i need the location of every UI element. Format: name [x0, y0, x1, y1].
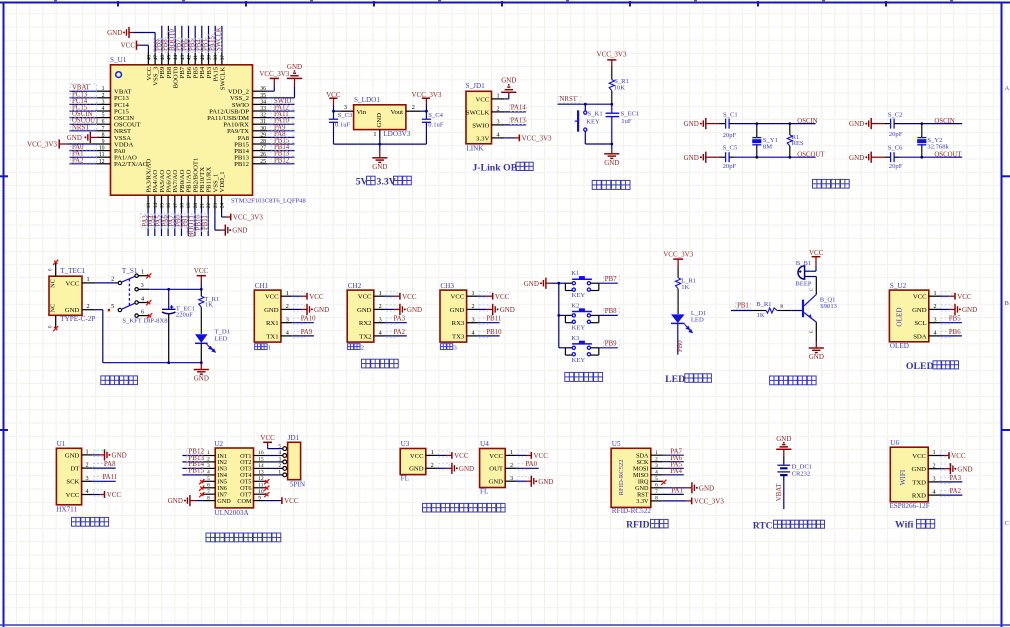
svg-text:VCC: VCC: [913, 294, 927, 301]
svg-text:19: 19: [186, 203, 192, 209]
U3 body: [400, 449, 426, 475]
svg-text:33: 33: [260, 106, 266, 112]
svg-text:VCC: VCC: [454, 452, 469, 460]
svg-text:4: 4: [471, 330, 474, 337]
svg-text:PA3: PA3: [950, 475, 962, 482]
svg-text:46: 46: [160, 55, 166, 61]
svg-text:1: 1: [471, 290, 474, 297]
svg-text:CH2: CH2: [348, 282, 362, 290]
svg-text:S_U1: S_U1: [110, 56, 127, 64]
svg-text:2: 2: [207, 457, 210, 463]
svg-text:13: 13: [258, 470, 264, 476]
svg-text:A: A: [1005, 85, 1010, 92]
oled vcc: [940, 295, 949, 297]
svg-text:SWIO: SWIO: [472, 122, 489, 129]
svg-text:15: 15: [160, 203, 166, 209]
net label NRST wire: [558, 103, 612, 105]
svg-text:PA2: PA2: [950, 488, 962, 495]
svg-text:2: 2: [431, 462, 434, 469]
svg-text:K2: K2: [571, 302, 579, 309]
erc marker: [108, 309, 110, 311]
svg-text:42: 42: [187, 55, 193, 61]
svg-text:C: C: [1005, 520, 1010, 527]
capacitor S_C3: [333, 111, 335, 119]
mcu VSS_1 wire to gnd: [214, 210, 216, 231]
svg-text:2: 2: [510, 462, 513, 469]
svg-text:TX3: TX3: [452, 333, 465, 340]
svg-text:41: 41: [193, 55, 199, 61]
svg-text:S_C5: S_C5: [723, 145, 738, 152]
svg-text:PB9: PB9: [605, 341, 617, 348]
svg-text:KEY: KEY: [572, 292, 586, 299]
battery wire down / net label VBAT: [783, 475, 785, 482]
jlink S_JD1 body: [466, 91, 492, 144]
svg-text:PB8: PB8: [605, 308, 617, 315]
svg-text:VCC_3V3: VCC_3V3: [663, 251, 693, 259]
svg-text:GND: GND: [357, 307, 372, 314]
svg-text:GND: GND: [194, 375, 209, 383]
svg-text:VCC: VCC: [534, 452, 549, 460]
svg-text:1: 1: [496, 93, 499, 100]
net label PB8: [161, 38, 168, 52]
net label PB6: [181, 38, 188, 52]
key S_K1 switch: [584, 111, 587, 114]
svg-text:STM32F103C8T6_LQFP48: STM32F103C8T6_LQFP48: [231, 198, 306, 205]
svg-text:GND: GND: [912, 466, 927, 473]
svg-text:GND: GND: [500, 306, 515, 314]
svg-text:KEY: KEY: [586, 118, 600, 125]
svg-text:ESP8266-12F: ESP8266-12F: [889, 502, 929, 510]
mcu VDD_1 wire to vcc: [221, 210, 223, 218]
svg-text:VCC: VCC: [451, 294, 465, 301]
svg-text:PA9: PA9: [301, 329, 313, 336]
key wire / net label PB7: [599, 282, 618, 284]
keys bus: [558, 283, 560, 348]
switch lever top: [122, 276, 135, 282]
svg-text:2: 2: [286, 303, 289, 310]
key S_K1 branch: [584, 104, 586, 111]
svg-text:5: 5: [111, 303, 114, 310]
svg-text:GND: GND: [376, 113, 383, 128]
ldo gnd pin stub: [379, 130, 381, 138]
svg-text:18: 18: [180, 203, 186, 209]
wire gnd bottom rail: [379, 138, 381, 145]
svg-text:VCC: VCC: [402, 293, 417, 301]
svg-text:U2: U2: [214, 440, 223, 448]
title stepper motor: [206, 533, 215, 542]
svg-text:FL: FL: [480, 488, 488, 496]
wire vout: [421, 110, 427, 112]
svg-text:12: 12: [99, 159, 105, 165]
crystal gnd top: [865, 118, 871, 129]
jlink vcc_3v3 port: [518, 135, 520, 142]
svg-text:VCC: VCC: [66, 492, 80, 499]
crystal gnd top: [700, 118, 706, 129]
comment serial 2: [348, 344, 354, 350]
svg-text:VCC_3V3: VCC_3V3: [233, 214, 263, 222]
uln IN5 no-connect: [199, 479, 204, 484]
battery D_DC1: [783, 456, 785, 465]
mcu VDD_1 vcc_3v3 port: [230, 214, 232, 221]
CH3 vcc: [478, 295, 488, 297]
switch lever bottom: [122, 303, 135, 309]
svg-text:27: 27: [260, 146, 266, 152]
svg-text:OSCIN: OSCIN: [797, 118, 817, 125]
svg-text:3: 3: [932, 476, 935, 483]
switch pin3 wire: [138, 288, 149, 290]
svg-text:B_B1: B_B1: [796, 260, 811, 267]
oled scl wire / net label PB5: [940, 322, 962, 324]
svg-text:9: 9: [102, 139, 105, 145]
svg-text:3: 3: [496, 119, 499, 126]
key K1: [559, 282, 566, 284]
svg-text:GND: GND: [524, 280, 539, 288]
svg-text:30: 30: [260, 126, 266, 132]
svg-text:4: 4: [102, 106, 105, 112]
buzzer B_B1: [815, 266, 817, 271]
svg-text:LED: LED: [215, 336, 228, 343]
uln gnd: [196, 500, 203, 502]
svg-text:2: 2: [102, 93, 105, 99]
svg-text:2: 2: [933, 303, 936, 310]
svg-text:0.1uF: 0.1uF: [428, 122, 444, 129]
svg-text:GND: GND: [604, 159, 619, 167]
svg-text:S_C6: S_C6: [888, 145, 903, 152]
CH1 tx wire / net label PA9: [292, 335, 314, 337]
svg-text:VDD_1: VDD_1: [219, 171, 226, 192]
svg-text:LED: LED: [665, 374, 685, 385]
capacitor T_EC1: [167, 288, 170, 291]
svg-text:PB6: PB6: [949, 329, 961, 336]
svg-text:4: 4: [141, 295, 144, 302]
svg-text:VCC: VCC: [912, 453, 926, 460]
hx711 gnd: [92, 454, 100, 456]
crystal S_Y2: [920, 122, 923, 125]
svg-text:39: 39: [207, 55, 213, 61]
svg-text:OUT: OUT: [489, 466, 503, 473]
svg-text:TXD: TXD: [912, 479, 926, 486]
svg-text:5V: 5V: [356, 177, 368, 188]
svg-text:PB1: PB1: [737, 303, 749, 310]
svg-text:32: 32: [260, 113, 266, 119]
wire gnd down: [95, 309, 103, 311]
svg-text:PB15: PB15: [188, 467, 204, 475]
capacitor top: [719, 123, 726, 125]
net label SWCLK: [214, 32, 221, 53]
oled S_U2 body: [889, 290, 928, 342]
svg-text:26: 26: [260, 152, 266, 158]
svg-text:NC: NC: [50, 279, 57, 288]
svg-text:2: 2: [932, 462, 935, 469]
svg-text:2: 2: [496, 106, 499, 113]
svg-text:2: 2: [361, 345, 364, 352]
resistor R1: [788, 122, 791, 125]
reset gnd symbol: [604, 154, 619, 159]
mcu U1 body: [111, 65, 253, 195]
jlink pin4 wire to vcc: [504, 137, 514, 139]
svg-text:11: 11: [99, 152, 105, 158]
net label PB11: [200, 214, 207, 231]
capacitor top: [884, 123, 890, 125]
svg-text:LINK: LINK: [466, 145, 484, 153]
svg-text:VCC_3V3: VCC_3V3: [694, 498, 724, 506]
svg-text:VCC: VCC: [951, 452, 966, 460]
CH2 rx wire / net label PA3: [385, 322, 407, 324]
CH1 gnd: [292, 308, 302, 310]
svg-text:GND: GND: [809, 353, 824, 361]
ldo gnd symbol: [372, 158, 387, 163]
svg-text:6: 6: [141, 308, 144, 315]
mcu VDD_2 wire to vcc: [267, 90, 274, 92]
jd1 pin 5: [283, 447, 287, 451]
svg-text:B_R1: B_R1: [756, 301, 771, 308]
svg-text:4: 4: [933, 330, 936, 337]
jlink pin3 wire: [504, 124, 526, 126]
svg-text:SDA: SDA: [913, 333, 927, 340]
buzzer gnd symbol: [809, 348, 824, 353]
title ir switch module: [423, 503, 432, 512]
capacitor S_EC1: [611, 104, 613, 113]
CH1 rx wire / net label PA10: [292, 322, 314, 324]
uln in wire / net label PB14: [182, 467, 202, 469]
svg-text:GND: GND: [912, 307, 927, 314]
svg-text:VCC_3V3: VCC_3V3: [259, 70, 289, 78]
rfid rst wire / net label PA1: [663, 493, 684, 495]
mcu VSSA gnd symbol: [90, 136, 98, 138]
key K2: [559, 314, 566, 316]
svg-text:VCC: VCC: [358, 294, 372, 301]
svg-text:PB5: PB5: [949, 316, 961, 323]
svg-text:OSCOUT: OSCOUT: [797, 151, 825, 158]
led T_D1: [195, 334, 208, 343]
svg-text:1: 1: [932, 449, 935, 456]
net label PB7: [174, 38, 181, 52]
svg-text:PA2: PA2: [394, 329, 406, 336]
svg-text:GND: GND: [168, 497, 183, 505]
svg-text:8M: 8M: [763, 143, 772, 150]
svg-text:PA14: PA14: [511, 104, 526, 111]
svg-text:VCC: VCC: [489, 453, 503, 460]
svg-text:7: 7: [207, 489, 210, 495]
svg-text:SWCLK: SWCLK: [466, 109, 490, 116]
svg-text:RFID-RC522: RFID-RC522: [612, 507, 652, 515]
svg-text:GND: GND: [962, 306, 977, 314]
svg-text:SCL: SCL: [914, 320, 926, 327]
svg-text:3.3V: 3.3V: [377, 177, 396, 188]
svg-text:TX2: TX2: [359, 333, 371, 340]
svg-text:4: 4: [379, 330, 382, 337]
wifi txd wire / net label PA3: [940, 481, 963, 483]
resistor L_R1: [677, 266, 679, 278]
rfid 3.3V to vcc_3v3: [663, 500, 687, 502]
svg-text:RX1: RX1: [266, 320, 279, 327]
svg-text:14: 14: [153, 203, 159, 209]
svg-text:SCK: SCK: [66, 479, 79, 486]
svg-text:3: 3: [102, 99, 105, 105]
svg-text:20pF: 20pF: [889, 131, 903, 138]
svg-text:Wifi: Wifi: [895, 520, 914, 531]
svg-text:1: 1: [85, 449, 88, 456]
svg-text:VCC: VCC: [309, 293, 324, 301]
svg-text:20pF: 20pF: [723, 132, 737, 139]
svg-text:4: 4: [85, 488, 88, 495]
svg-text:1K: 1K: [205, 301, 213, 308]
rfid irq no-connect: [661, 480, 666, 485]
jd1 pin 4: [283, 454, 287, 458]
svg-text:13: 13: [146, 203, 152, 209]
svg-text:VCC: VCC: [809, 249, 824, 257]
svg-text:S_C3: S_C3: [338, 112, 353, 119]
svg-text:OLED: OLED: [906, 361, 934, 372]
svg-text:JD1: JD1: [288, 434, 300, 442]
svg-text:PB12: PB12: [234, 161, 249, 168]
svg-text:4: 4: [932, 489, 935, 496]
svg-text:28: 28: [260, 139, 266, 145]
svg-text:5: 5: [102, 113, 105, 119]
svg-text:8: 8: [102, 132, 105, 138]
net label PA4: [147, 214, 154, 228]
svg-text:20pF: 20pF: [723, 163, 737, 170]
svg-text:2: 2: [412, 104, 415, 111]
svg-text:VCC: VCC: [107, 491, 122, 499]
svg-text:10: 10: [258, 489, 264, 495]
svg-text:14: 14: [258, 463, 264, 469]
svg-text:U5: U5: [612, 440, 621, 448]
title weighing module: [72, 517, 81, 526]
jd1 body: [288, 442, 301, 479]
title key circuit: [565, 372, 574, 381]
jlink pin2 wire: [504, 111, 526, 113]
svg-text:3: 3: [933, 316, 936, 323]
reset bottom wire: [585, 143, 612, 145]
svg-text:20pF: 20pF: [889, 163, 903, 170]
net label PB0: [174, 214, 181, 228]
crystal gnd bottom: [865, 152, 871, 163]
svg-text:2: 2: [655, 456, 658, 462]
crystal S_Y1: [755, 122, 758, 125]
svg-text:5: 5: [207, 476, 210, 482]
svg-text:43: 43: [180, 55, 186, 61]
svg-text:CR232: CR232: [792, 471, 811, 478]
svg-text:LED: LED: [691, 316, 704, 323]
ldo pin3 stub: [340, 110, 353, 112]
uln IN6 no-connect: [199, 486, 204, 491]
keys gnd symbol: [540, 278, 546, 289]
svg-text:BEEP: BEEP: [795, 281, 811, 288]
svg-text:FL: FL: [401, 475, 409, 483]
svg-text:3: 3: [471, 316, 474, 323]
wifi rxd wire / net label PA2: [940, 494, 963, 496]
svg-text:C: C: [809, 288, 814, 291]
svg-text:24: 24: [220, 203, 226, 209]
svg-text:1: 1: [655, 450, 658, 456]
svg-text:PA8: PA8: [104, 461, 116, 468]
hx711 vcc: [92, 494, 100, 496]
jd1 pin 3: [283, 460, 287, 464]
resistor T_R1: [200, 289, 202, 296]
mcu VDD_2 vcc_3v3 port: [270, 77, 279, 79]
resistor B_R1: [731, 310, 752, 312]
wire OT4 to JD1: [266, 474, 279, 476]
uln in wire / net label PB13: [182, 461, 202, 463]
uln in wire / net label PB15: [182, 474, 202, 476]
svg-text:23: 23: [213, 203, 219, 209]
svg-text:S_LDO1: S_LDO1: [354, 96, 380, 104]
svg-text:S_C2: S_C2: [888, 112, 903, 119]
capacitor bottom: [719, 156, 726, 158]
svg-text:VCC: VCC: [476, 96, 490, 103]
svg-text:PA10: PA10: [301, 316, 316, 323]
resistor S_R1: [611, 66, 613, 80]
svg-text:RTC: RTC: [753, 520, 773, 531]
svg-text:COM: COM: [237, 498, 252, 505]
switch pin1: [138, 275, 148, 277]
mcu VSS_2 gnd symbol: [287, 70, 302, 78]
svg-text:1: 1: [286, 290, 289, 297]
svg-text:PA4: PA4: [670, 467, 682, 475]
net label PB1: [736, 303, 751, 309]
svg-text:S9013: S9013: [820, 303, 838, 310]
svg-text:47: 47: [153, 55, 159, 61]
svg-text:3: 3: [141, 282, 144, 289]
wire OT2 to JD1: [266, 461, 279, 463]
svg-text:VCC: VCC: [260, 434, 275, 442]
svg-text:3: 3: [286, 316, 289, 323]
ldo U_LDO1 body: [354, 105, 406, 130]
svg-text:GND: GND: [699, 484, 714, 492]
net label PB9: [154, 38, 161, 52]
key K3: [559, 347, 566, 349]
oled gnd: [940, 308, 949, 310]
wifi vcc: [940, 455, 945, 457]
svg-text:8: 8: [207, 495, 210, 501]
svg-text:1: 1: [510, 449, 513, 456]
key bottom wire: [584, 131, 586, 144]
svg-text:1uF: 1uF: [621, 118, 632, 125]
svg-text:21: 21: [200, 203, 206, 209]
net label PA7: [167, 214, 174, 228]
svg-text:2: 2: [86, 303, 89, 310]
svg-text:PA13: PA13: [511, 117, 526, 124]
svg-text:9: 9: [258, 495, 261, 501]
svg-text:S_KFT DIP-8X8: S_KFT DIP-8X8: [122, 317, 168, 324]
svg-text:3.3V: 3.3V: [476, 135, 489, 142]
net label PB10: [194, 214, 201, 231]
svg-text:OLED: OLED: [896, 307, 904, 326]
svg-text:E: E: [809, 330, 814, 333]
svg-text:PA1: PA1: [671, 487, 683, 495]
svg-text:GND: GND: [684, 154, 699, 162]
svg-text:40: 40: [200, 55, 206, 61]
wire vin: [334, 110, 341, 112]
svg-text:GND: GND: [489, 479, 504, 486]
svg-text:K3: K3: [571, 335, 580, 342]
svg-text:GND: GND: [450, 307, 465, 314]
svg-text:220uF: 220uF: [176, 312, 193, 319]
jlink gnd symbol: [501, 84, 516, 92]
svg-text:S_EC1: S_EC1: [621, 111, 640, 118]
svg-text:VCC: VCC: [410, 453, 424, 460]
key wire / net label PB9: [599, 347, 618, 349]
svg-text:GND: GND: [957, 465, 972, 473]
svg-text:VCC_3V3: VCC_3V3: [597, 51, 627, 59]
net label PB3: [201, 38, 208, 52]
svg-text:GND: GND: [112, 452, 127, 460]
svg-text:1: 1: [268, 345, 271, 352]
svg-text:PB12: PB12: [274, 157, 290, 164]
svg-text:5PIN: 5PIN: [290, 480, 306, 488]
svg-text:T_D1: T_D1: [215, 328, 230, 335]
